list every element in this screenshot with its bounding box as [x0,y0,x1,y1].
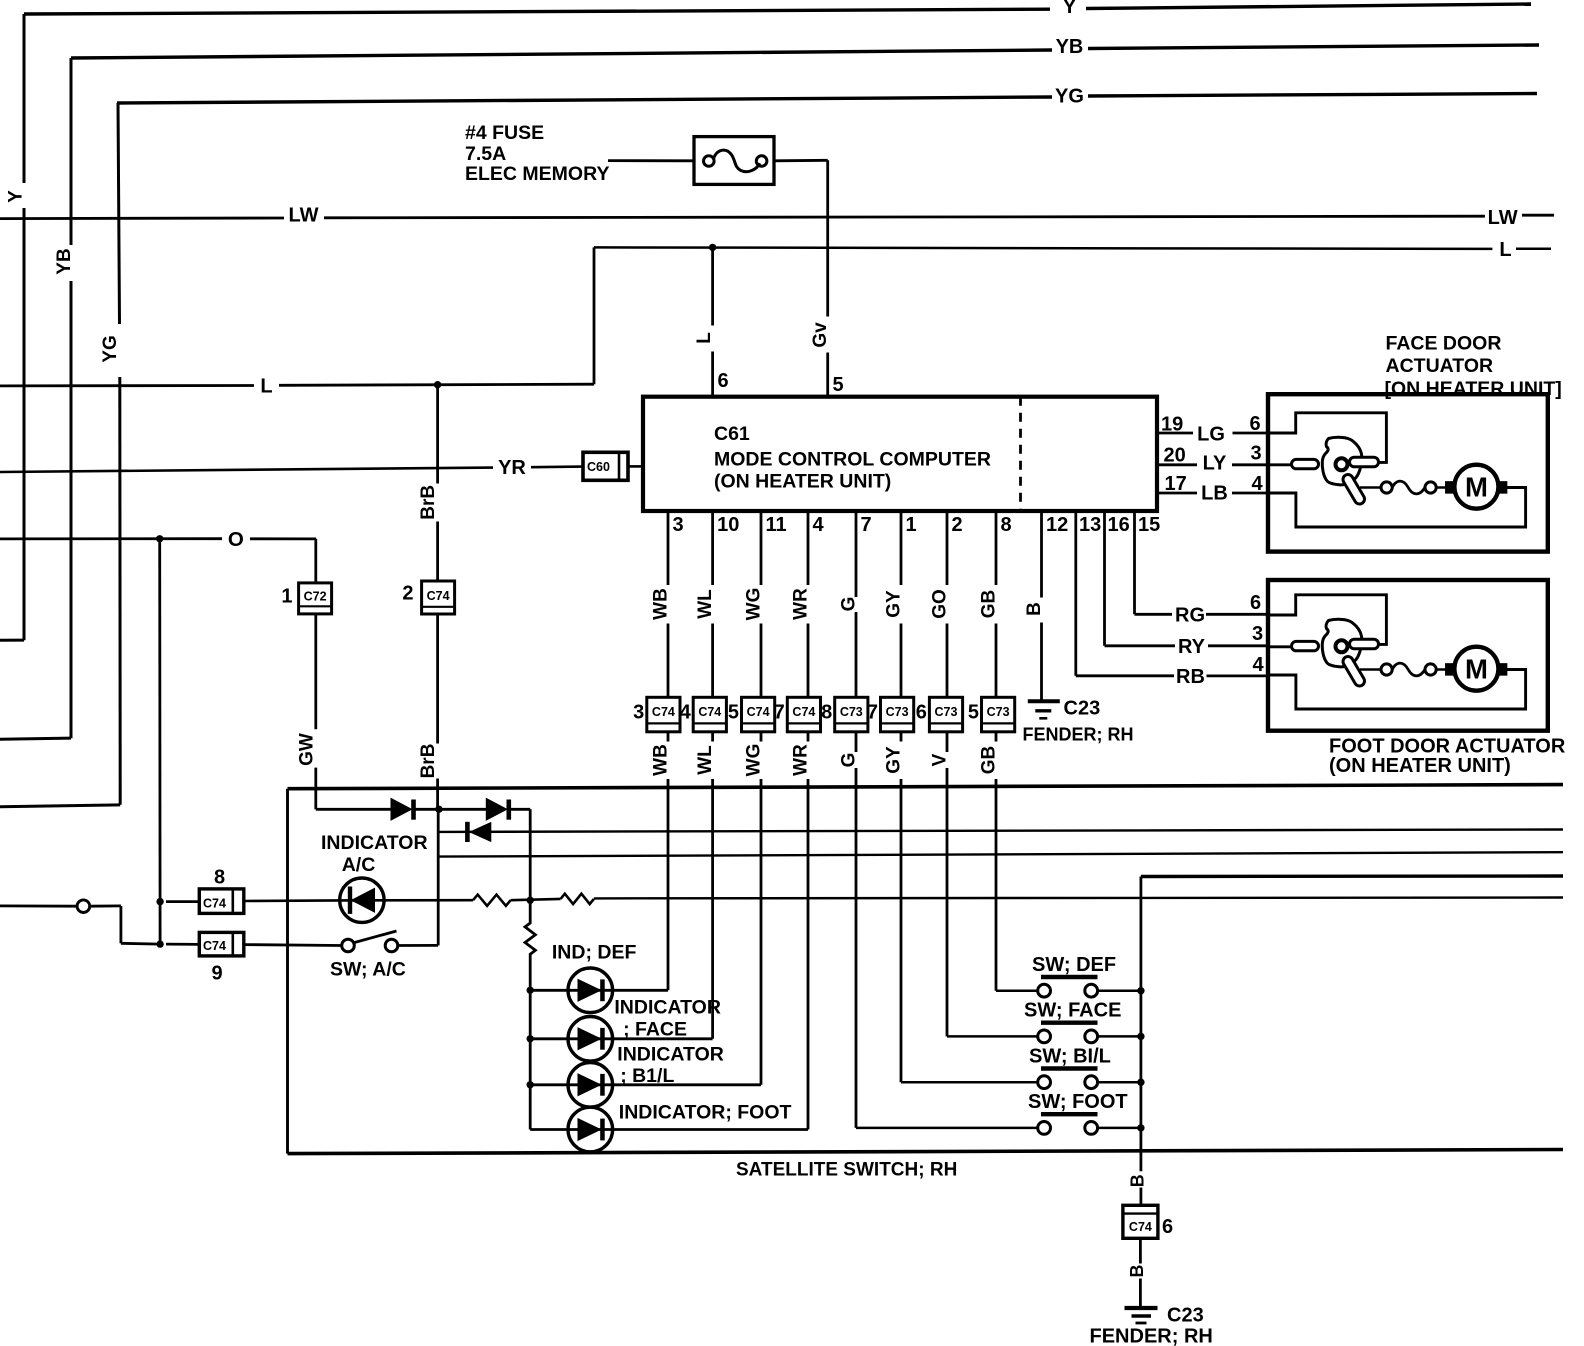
svg-text:4: 4 [1252,473,1264,495]
svg-text:C74: C74 [203,897,226,911]
svg-text:SW; A/C: SW; A/C [330,958,406,980]
svg-text:7: 7 [867,702,878,724]
svg-text:3: 3 [633,702,644,724]
svg-text:6: 6 [1250,592,1261,614]
svg-text:19: 19 [1161,414,1183,436]
svg-text:; FACE: ; FACE [623,1019,687,1041]
svg-text:C60: C60 [587,460,610,474]
svg-text:FACE DOOR: FACE DOOR [1386,333,1502,355]
svg-text:C73: C73 [886,705,909,719]
svg-text:WR: WR [791,744,812,776]
svg-text:LW: LW [289,205,319,227]
svg-text:9: 9 [211,963,222,985]
svg-text:SW; FACE: SW; FACE [1024,1000,1121,1022]
svg-text:WB: WB [651,744,672,776]
svg-text:(ON HEATER UNIT): (ON HEATER UNIT) [714,470,891,492]
svg-text:C73: C73 [987,705,1010,719]
svg-text:INDICATOR: INDICATOR [614,997,721,1019]
svg-text:LY: LY [1203,453,1227,475]
svg-text:3: 3 [673,514,684,536]
svg-text:A/C: A/C [342,854,376,876]
svg-text:YR: YR [498,457,526,479]
svg-text:GY: GY [884,746,905,774]
svg-text:GO: GO [930,589,951,619]
svg-text:G: G [839,597,860,612]
svg-text:13: 13 [1079,514,1101,536]
svg-text:#4 FUSE: #4 FUSE [465,122,544,144]
svg-text:G: G [839,753,860,768]
svg-text:C74: C74 [792,705,815,719]
svg-text:(ON HEATER UNIT): (ON HEATER UNIT) [1329,755,1511,777]
svg-text:BrB: BrB [418,744,439,779]
svg-text:Y: Y [1063,0,1077,18]
svg-text:2: 2 [952,514,963,536]
svg-text:BrB: BrB [418,485,439,520]
svg-text:YB: YB [1056,36,1084,58]
svg-text:LG: LG [1197,423,1225,445]
svg-text:B: B [1127,1265,1147,1278]
svg-text:GY: GY [884,590,905,618]
svg-text:WG: WG [744,588,765,621]
svg-text:12: 12 [1046,514,1068,536]
svg-text:WL: WL [695,589,716,619]
svg-text:6: 6 [718,370,729,392]
svg-text:SATELLITE SWITCH; RH: SATELLITE SWITCH; RH [736,1159,957,1180]
svg-text:4: 4 [1253,654,1265,676]
svg-text:ACTUATOR: ACTUATOR [1386,355,1494,377]
svg-text:IND; DEF: IND; DEF [552,942,637,964]
svg-text:4: 4 [813,514,825,536]
svg-text:SW; DEF: SW; DEF [1032,954,1116,976]
svg-text:Gv: Gv [810,322,831,348]
svg-text:WG: WG [744,744,765,777]
svg-text:V: V [930,753,951,766]
svg-text:17: 17 [1165,473,1187,495]
svg-text:C23: C23 [1064,698,1101,720]
svg-text:6: 6 [1250,413,1261,435]
svg-text:L: L [1499,239,1511,261]
svg-text:YG: YG [1055,86,1084,108]
svg-text:3: 3 [1252,623,1263,645]
svg-text:6: 6 [1162,1216,1173,1238]
svg-text:16: 16 [1108,514,1130,536]
svg-text:C74: C74 [427,589,450,603]
svg-text:FENDER; RH: FENDER; RH [1090,1326,1213,1346]
svg-text:SW; FOOT: SW; FOOT [1028,1091,1128,1113]
svg-text:8: 8 [821,702,832,724]
svg-text:RB: RB [1176,666,1205,688]
svg-text:FENDER; RH: FENDER; RH [1023,725,1134,745]
svg-text:MODE CONTROL COMPUTER: MODE CONTROL COMPUTER [714,448,991,470]
svg-text:C74: C74 [652,705,675,719]
svg-text:INDICATOR; FOOT: INDICATOR; FOOT [619,1102,792,1124]
svg-text:15: 15 [1138,514,1160,536]
svg-text:[ON HEATER UNIT]: [ON HEATER UNIT] [1385,378,1562,400]
svg-text:C61: C61 [714,423,750,445]
svg-text:6: 6 [916,702,927,724]
svg-text:INDICATOR: INDICATOR [617,1043,724,1065]
svg-text:YB: YB [54,248,75,274]
svg-text:4: 4 [680,702,692,724]
svg-text:C73: C73 [840,705,863,719]
svg-text:; B1/L: ; B1/L [620,1065,674,1087]
svg-text:C23: C23 [1167,1305,1204,1327]
svg-text:GB: GB [979,590,1000,619]
svg-text:INDICATOR: INDICATOR [321,832,428,854]
svg-text:1: 1 [906,514,917,536]
svg-text:7: 7 [861,514,872,536]
svg-text:C72: C72 [304,589,327,603]
svg-text:RY: RY [1178,636,1206,658]
svg-text:WB: WB [651,588,672,620]
svg-text:L: L [694,332,715,344]
svg-text:O: O [228,528,244,551]
svg-text:Y: Y [6,190,27,203]
svg-text:WL: WL [695,745,716,775]
svg-text:WR: WR [791,588,812,620]
svg-text:LW: LW [1488,207,1518,229]
svg-text:C74: C74 [203,939,226,953]
svg-text:3: 3 [1251,443,1262,465]
svg-text:YG: YG [100,335,121,362]
svg-text:8: 8 [1001,514,1012,536]
svg-text:L: L [260,375,272,397]
svg-text:RG: RG [1175,605,1205,627]
svg-text:GW: GW [297,733,318,766]
svg-text:5: 5 [728,702,739,724]
svg-text:7.5A: 7.5A [465,143,506,165]
svg-text:10: 10 [717,514,739,536]
svg-text:C74: C74 [698,705,721,719]
svg-text:SW; BI/L: SW; BI/L [1029,1046,1111,1068]
svg-text:C74: C74 [747,705,770,719]
svg-text:B: B [1128,1174,1148,1187]
svg-text:GB: GB [979,746,1000,775]
svg-text:LB: LB [1201,482,1228,504]
svg-text:C73: C73 [935,705,958,719]
svg-text:20: 20 [1164,445,1186,467]
svg-text:M: M [1465,472,1488,503]
svg-text:B: B [1024,602,1045,616]
svg-text:C74: C74 [1129,1220,1152,1234]
svg-text:5: 5 [968,702,979,724]
svg-text:2: 2 [402,582,413,604]
svg-text:5: 5 [833,374,844,396]
svg-text:ELEC MEMORY: ELEC MEMORY [465,163,609,185]
svg-text:1: 1 [281,585,292,607]
svg-text:7: 7 [774,702,785,724]
svg-text:11: 11 [766,514,787,536]
svg-text:8: 8 [214,867,225,889]
